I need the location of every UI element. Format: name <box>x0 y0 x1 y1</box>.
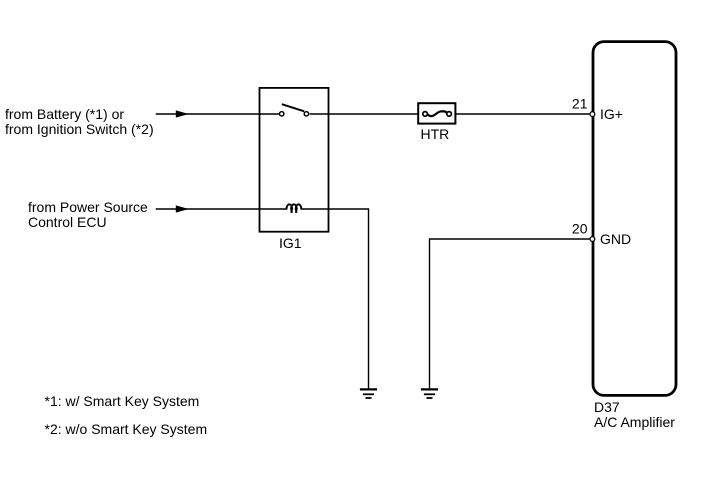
svg-text:IG+: IG+ <box>600 106 623 122</box>
svg-text:A/C Amplifier: A/C Amplifier <box>594 414 675 430</box>
svg-text:from Battery (*1) or: from Battery (*1) or <box>5 106 124 122</box>
svg-text:HTR: HTR <box>421 126 450 142</box>
svg-text:*1: w/ Smart Key System: *1: w/ Smart Key System <box>45 393 200 409</box>
svg-text:21: 21 <box>572 96 588 112</box>
svg-text:*2: w/o Smart Key System: *2: w/o Smart Key System <box>45 421 208 437</box>
svg-text:GND: GND <box>600 231 631 247</box>
svg-text:from Ignition Switch (*2): from Ignition Switch (*2) <box>5 121 154 137</box>
svg-text:Control ECU: Control ECU <box>28 214 107 230</box>
svg-text:20: 20 <box>572 221 588 237</box>
svg-text:from Power Source: from Power Source <box>28 199 148 215</box>
svg-text:IG1: IG1 <box>279 235 302 251</box>
svg-text:D37: D37 <box>594 399 620 415</box>
